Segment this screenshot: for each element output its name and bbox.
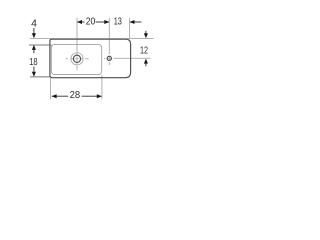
svg-text:18: 18	[29, 57, 38, 68]
svg-text:12: 12	[140, 46, 148, 57]
svg-text:13: 13	[114, 17, 122, 28]
svg-text:20: 20	[86, 16, 96, 27]
svg-text:28: 28	[70, 90, 81, 101]
svg-text:4: 4	[31, 18, 37, 29]
